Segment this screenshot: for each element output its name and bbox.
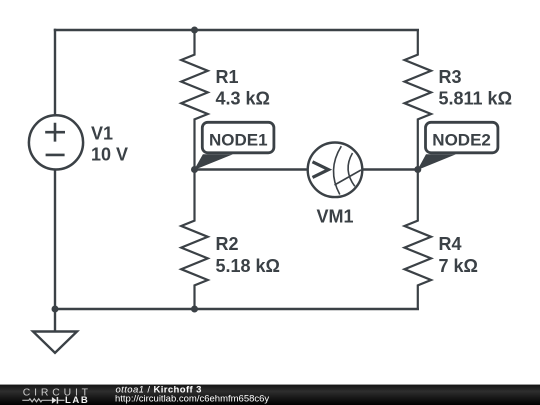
wire top (54, 29, 419, 31)
resistor R4 (405, 170, 478, 310)
svg-text:R2: R2 (216, 234, 239, 254)
node dot bottom middle (191, 306, 198, 313)
wire middle right (362, 168, 418, 170)
svg-text:NODE2: NODE2 (432, 131, 491, 150)
svg-text:R4: R4 (439, 234, 462, 254)
svg-text:7 kΩ: 7 kΩ (439, 256, 478, 276)
footer bar (0, 384, 540, 405)
svg-text:4.3 kΩ: 4.3 kΩ (216, 88, 270, 108)
node NODE2 (414, 122, 498, 173)
resistor R1 (181, 30, 270, 170)
footer title text (115, 385, 269, 405)
ground (33, 309, 77, 353)
wire bottom (54, 308, 419, 310)
CircuitLab logo (22, 387, 92, 405)
wire left upper (54, 29, 56, 116)
voltmeter VM1 (308, 143, 363, 227)
svg-text:V1: V1 (91, 123, 113, 143)
svg-text:NODE1: NODE1 (209, 131, 268, 150)
svg-text:5.811 kΩ: 5.811 kΩ (439, 88, 513, 108)
svg-text:R3: R3 (439, 67, 462, 87)
resistor R3 (405, 30, 513, 170)
svg-text:http://circuitlab.com/c6ehmfm6: http://circuitlab.com/c6ehmfm658c6y (115, 394, 269, 405)
svg-text:LAB: LAB (65, 395, 89, 405)
svg-text:VM1: VM1 (316, 207, 353, 227)
node dot ground (52, 306, 59, 313)
resistor R2 (181, 170, 280, 310)
voltage source V1 (29, 115, 128, 169)
node NODE1 (191, 122, 274, 173)
wire middle left (195, 168, 307, 170)
svg-text:R1: R1 (216, 67, 239, 87)
wire left lower (54, 170, 56, 310)
node dot top (191, 27, 198, 34)
svg-text:5.18 kΩ: 5.18 kΩ (216, 256, 280, 276)
svg-text:10 V: 10 V (91, 145, 128, 165)
